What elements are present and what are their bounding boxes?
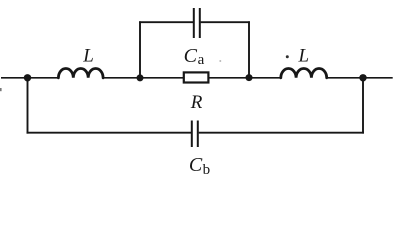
wire top left to capacitor Ca	[139, 21, 193, 23]
svg-text:a: a	[198, 52, 205, 68]
svg-text:L: L	[298, 46, 310, 67]
node B junction dot	[137, 74, 144, 81]
wire resistor R to node C	[209, 77, 249, 79]
inductor L1	[58, 69, 103, 78]
resistor R	[184, 72, 209, 82]
svg-text:R: R	[190, 92, 203, 113]
wire inductor L2 to node D	[328, 77, 363, 79]
edge artifact left margin	[0, 88, 2, 91]
wire left terminal to node A	[1, 77, 28, 79]
node A junction dot	[24, 74, 31, 81]
wire node B to resistor R	[140, 77, 183, 79]
wire inductor L1 to node B	[104, 77, 140, 79]
label Ca	[184, 45, 205, 68]
capacitor Ca plates	[194, 8, 200, 38]
wire node A to inductor L1	[28, 77, 58, 79]
wire capacitor Cb to bottom right	[199, 132, 364, 134]
wire bottom left to capacitor Cb	[27, 132, 192, 134]
node D junction dot	[359, 74, 366, 81]
wire node D down	[362, 78, 364, 134]
wire node A down	[27, 78, 29, 134]
svg-text:L: L	[82, 46, 94, 67]
svg-text:b: b	[203, 162, 211, 178]
wire node C to inductor L2	[249, 77, 280, 79]
wire node B up	[139, 21, 141, 78]
wire node C up	[248, 21, 250, 78]
svg-text:C: C	[184, 45, 198, 67]
dot mark before right L label	[286, 55, 289, 58]
faint artifact dot right of Ca	[219, 60, 221, 62]
wire node D to right terminal	[363, 77, 393, 79]
svg-text:C: C	[189, 154, 203, 176]
node C junction dot	[246, 74, 253, 81]
wire capacitor Ca to top right	[201, 21, 250, 23]
capacitor Cb plates	[192, 121, 198, 148]
label Cb	[189, 154, 210, 178]
inductor L2	[281, 69, 327, 78]
